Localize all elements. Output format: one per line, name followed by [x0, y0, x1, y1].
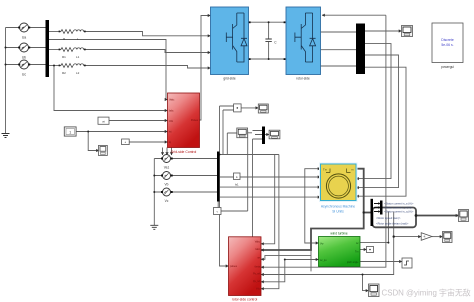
wire vert down to red2 top c [261, 155, 275, 244]
gain triangle [421, 233, 432, 241]
wire Vabc loop to control in2 [54, 66, 168, 111]
svg-text:<Stator current is_a (A)>: <Stator current is_a (A)> [384, 202, 414, 206]
block B below busbar [214, 208, 222, 215]
capacitor C [265, 39, 271, 42]
wire capacitor branch [268, 22, 270, 59]
svg-text:Discrete: Discrete [441, 38, 454, 42]
P block [367, 247, 374, 253]
product block [234, 104, 242, 112]
wire green out3 to step block [360, 261, 402, 263]
tag block m [98, 117, 109, 124]
wire bus measure to control in1 [49, 40, 168, 100]
svg-text:wr_pu: wr_pu [320, 259, 327, 262]
wire arrows into busbar3 top [162, 148, 164, 156]
source terminal dots [18, 27, 30, 66]
vmeas Vb [163, 172, 171, 180]
svg-text:wr: wr [257, 256, 260, 259]
measurement terminal dots [161, 158, 173, 194]
converter rotor-side [286, 7, 321, 75]
mux bar [262, 127, 265, 145]
subsystem wind turbine [319, 237, 361, 267]
svg-text:wr: wr [356, 242, 359, 245]
ground measure [150, 225, 158, 229]
wire gain input [394, 236, 421, 238]
wire Tm feed vertical [305, 169, 321, 237]
vmeas Va1 [163, 155, 171, 163]
wire red2 in3 from x311 [261, 256, 311, 260]
svg-text:SI Units: SI Units [332, 210, 344, 214]
scope 3 [237, 128, 248, 138]
svg-text:rotor-side: rotor-side [296, 77, 310, 81]
ac source Uc [20, 60, 29, 69]
wire green out2 to P block [360, 249, 367, 251]
wire Vb circle stubs [154, 175, 217, 177]
svg-text:grid-side: grid-side [223, 77, 235, 81]
svg-text:Vabc: Vabc [255, 241, 261, 244]
svg-text:<Rotor angle thetam (rad)>: <Rotor angle thetam (rad)> [376, 222, 409, 226]
svg-text:Asynchronous Machine: Asynchronous Machine [321, 205, 355, 209]
current tag block Is1 [234, 173, 241, 180]
svg-text:pitch angle: pitch angle [347, 261, 359, 264]
wire Va1 circle stubs [154, 158, 217, 160]
svg-text:Ps_ref: Ps_ref [253, 273, 260, 276]
scope 5 speed [459, 210, 469, 222]
wire rotor conv out C to busbar2 [321, 65, 357, 67]
svg-text:CSDN @yiming 宇宙无敌: CSDN @yiming 宇宙无敌 [382, 288, 471, 298]
wire control pulses to grid converter g [200, 16, 211, 121]
wire source Uc [6, 64, 46, 66]
subsystem rotor-side control [229, 237, 262, 296]
busbar 2 [356, 24, 365, 75]
svg-text:Tm: Tm [355, 250, 358, 253]
resistor R2 + inductor L2 phase C [61, 64, 84, 68]
wire busbar2 B to machine B [356, 55, 399, 188]
vmeas Vc [163, 188, 171, 196]
wire green wr input [285, 259, 319, 261]
wire red2 in6 from junction [261, 260, 285, 282]
svg-text:R1: R1 [62, 55, 66, 59]
svg-text:Is1: Is1 [235, 183, 239, 187]
wire tag1 to control in3 [109, 120, 168, 122]
wire vert down to red2 top d [261, 155, 279, 289]
scope 6 [443, 232, 453, 243]
wire bus sel out to red2 y257 [261, 212, 394, 275]
wire bus selector loop rect [373, 208, 417, 228]
wire machine m bus down [261, 169, 364, 250]
svg-text:5e-06 s.: 5e-06 s. [441, 43, 453, 47]
svg-text:theta: theta [255, 265, 261, 268]
wire vert down to red2 top b [252, 139, 254, 237]
wire source Ub [6, 47, 46, 49]
svg-text:<Stator current is_q (A)>: <Stator current is_q (A)> [384, 210, 414, 214]
svg-text:R2: R2 [62, 71, 66, 75]
wire scope3 feeds mux [248, 131, 262, 140]
wire mux to scope4 [265, 134, 269, 136]
svg-text:L1: L1 [76, 55, 80, 59]
ac source Ua [20, 23, 29, 32]
dc rail port dots [249, 21, 286, 60]
wire horizontal stub y154 [220, 154, 279, 156]
svg-text:-K-: -K- [423, 236, 426, 239]
machine asynchronous [320, 163, 357, 201]
wire blockB out [218, 202, 248, 212]
wire cluster vertical 2 [220, 110, 234, 155]
svg-text:Ua: Ua [22, 36, 26, 40]
converter grid-side [211, 7, 249, 75]
ac source Ub [20, 43, 29, 52]
scope 4 [269, 130, 280, 139]
wire tag2 to control in5 [129, 141, 167, 143]
wire rotor conv out B to busbar2 [321, 49, 357, 51]
wire busbar3 to machine b [220, 186, 321, 188]
svg-text:powergui: powergui [441, 65, 454, 69]
wire cluster vertical 3 [227, 133, 237, 155]
wire busbar2 A to machine A [356, 44, 391, 179]
wire dc rail minus [249, 58, 287, 60]
svg-text:<Rotor speed (wm)>: <Rotor speed (wm)> [376, 216, 401, 220]
wire Vc circle stubs [154, 191, 217, 193]
wire source Ua to rail and bus [6, 27, 46, 29]
scope 2 [258, 104, 268, 113]
wire thin left side of loop rect [310, 250, 312, 271]
powergui block [432, 23, 463, 63]
svg-text:Iabc: Iabc [255, 248, 260, 251]
svg-text:Ub: Ub [22, 56, 26, 60]
thick bus wires [261, 169, 459, 250]
svg-text:wind turbine: wind turbine [330, 232, 347, 236]
svg-text:Pulses: Pulses [191, 119, 199, 122]
svg-text:Grid-side Control: Grid-side Control [171, 150, 197, 154]
wire green out1 [360, 242, 388, 244]
svg-text:<Rotor current ir_a (A)>: <Rotor current ir_a (A)> [384, 206, 413, 210]
wire speed to scope5 [416, 215, 459, 217]
wire const1 to control in4 [76, 131, 168, 133]
ground left [2, 134, 10, 138]
wire rotor conv out A to busbar2 [321, 31, 357, 33]
svg-text:pulses: pulses [230, 265, 238, 268]
resistor R1 + inductor L1 phase B [61, 48, 84, 52]
wire product to scope2 [241, 107, 258, 109]
wire rail V measure to ground [153, 159, 155, 226]
bus selector bar 2 [380, 201, 383, 215]
svg-text:L2: L2 [76, 71, 80, 75]
svg-text:Vabc: Vabc [169, 99, 175, 102]
wire m bus to bus selector [364, 212, 371, 214]
wire gain to scope6 [432, 236, 443, 238]
wire busbar2 C to machine C [356, 67, 406, 196]
svg-text:Vc: Vc [165, 199, 169, 203]
wire rotor g input loop [322, 14, 386, 16]
step block [402, 258, 412, 268]
wire green Vw input from Tm rail [305, 237, 319, 244]
wire to scope7 from y274 junction [363, 275, 369, 291]
svg-text:Uc: Uc [22, 73, 26, 77]
wire phase C to converter [49, 65, 61, 67]
svg-text:wt: wt [102, 119, 105, 123]
svg-text:Iabc: Iabc [169, 110, 174, 113]
signal labels [374, 204, 379, 212]
wire busbar2 to scope1 [365, 30, 402, 32]
svg-text:Vw: Vw [320, 243, 324, 246]
wire const1 branch to miniscope [88, 132, 99, 151]
resistor R + inductor L phase A [61, 30, 84, 34]
wire vert down to red2 top a [247, 131, 249, 212]
svg-text:Va1: Va1 [164, 166, 170, 170]
wire dc rail plus [249, 21, 287, 23]
svg-text:Vb: Vb [165, 183, 169, 187]
RL branch terminal dots [59, 31, 86, 67]
mini scope display [99, 145, 108, 155]
busbar 3 [217, 152, 220, 202]
scope 1 [402, 26, 413, 37]
scope 7 [369, 284, 380, 297]
svg-text:Tm: Tm [323, 168, 328, 172]
wire busbar3 to machine a [220, 176, 321, 178]
svg-text:1: 1 [69, 131, 71, 135]
subsystem Grid-side Control [168, 93, 200, 148]
svg-text:Qs_ref: Qs_ref [253, 280, 261, 283]
wire phase B to converter [49, 49, 61, 51]
svg-text:wt: wt [169, 131, 172, 134]
wire phase A to converter [49, 31, 61, 33]
wire busbar3 to machine c [220, 196, 321, 198]
busbar 1 [46, 20, 50, 77]
bus selector bar 1 [371, 199, 374, 226]
svg-text:rotor-side control: rotor-side control [232, 298, 258, 302]
tag block 2 [122, 139, 130, 145]
wire left rail vertical [5, 28, 7, 134]
wire bus sel out down to green out1 line [387, 212, 389, 243]
wire cluster vertical 1 to product [220, 106, 234, 266]
constant block 1 [64, 127, 76, 136]
